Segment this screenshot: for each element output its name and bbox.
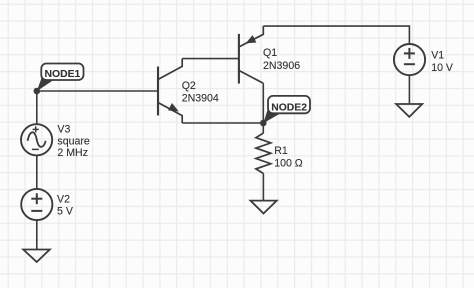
svg-text:Q1: Q1 [263,47,277,59]
voltage source V2 (5 V) [21,189,52,220]
wire: Q1 collector down to NODE2 [262,83,264,123]
wire: V3 to V2 [36,155,38,189]
wire: V1 to ground [408,75,410,104]
node NODE1 [34,64,84,95]
svg-text:R1: R1 [274,145,288,157]
wire: R1 to ground [262,174,264,201]
node NODE2 [260,96,310,126]
svg-text:V2: V2 [57,194,70,206]
wire: Q2 emitter to NODE2 [182,122,263,124]
svg-text:V1: V1 [431,50,444,62]
voltage source V1 (10 V) [394,44,425,75]
svg-text:NODE2: NODE2 [271,102,307,113]
voltage source V3 (square 2 MHz) [21,124,52,155]
ground (below R1) [251,201,277,214]
transistor Q2 (NPN 2N3904) [158,59,219,123]
wire: Q2 collector to Q1 base [182,58,239,60]
svg-text:100 Ω: 100 Ω [274,157,303,169]
ground (below V1) [396,104,422,117]
svg-text:square: square [57,135,89,147]
wire: V2 to ground [36,220,38,249]
svg-text:Q2: Q2 [182,80,196,92]
svg-text:2N3906: 2N3906 [263,60,300,72]
ground (below V2) [23,250,50,263]
wire: NODE1 to Q2 base [37,90,157,92]
resistor R1 100 Ohm [256,133,303,174]
svg-text:10 V: 10 V [431,62,454,74]
wire: NODE2 down to R1 [262,123,264,133]
svg-text:V3: V3 [57,124,70,136]
wire: top rail from Q1 emitter to V1 [263,26,409,44]
wire: NODE1 down to V3 [36,91,38,124]
svg-text:NODE1: NODE1 [44,69,80,80]
svg-text:2 MHz: 2 MHz [57,147,88,159]
svg-text:5 V: 5 V [57,205,74,217]
transistor Q1 (PNP 2N3906) [239,26,300,84]
svg-text:2N3904: 2N3904 [182,92,219,104]
